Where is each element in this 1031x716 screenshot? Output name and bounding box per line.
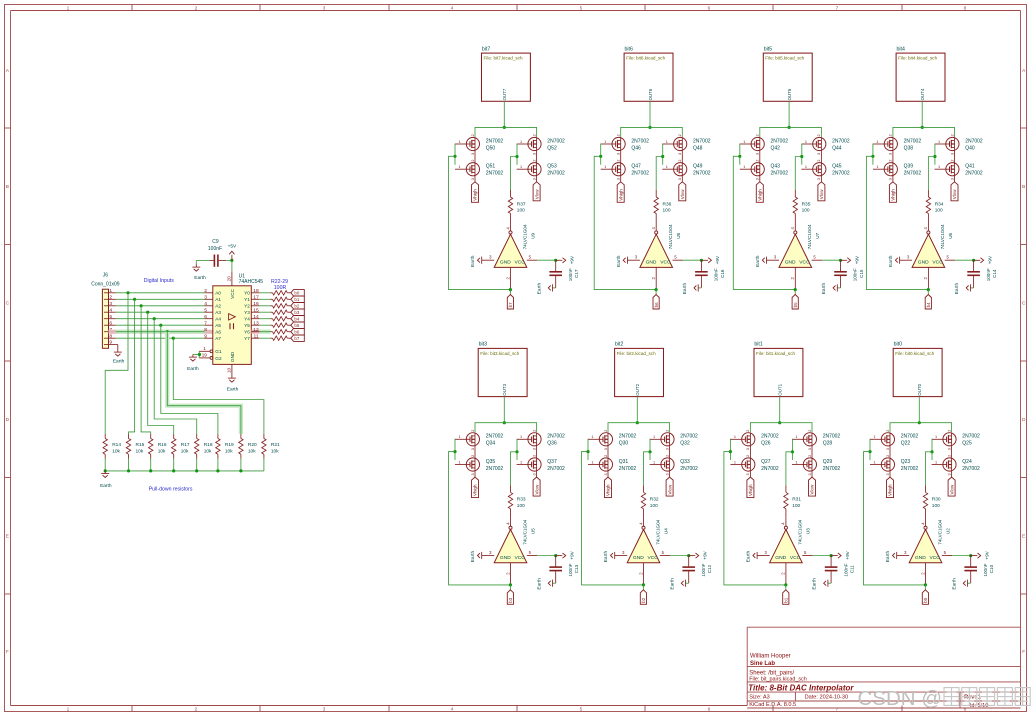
wire Q51 source down: [474, 176, 476, 182]
wire Q28 source to Q29 drain: [811, 446, 813, 458]
transistor Q46 2N7002: [601, 134, 649, 155]
svg-text:Date: 2024-10-30: Date: 2024-10-30: [805, 695, 849, 701]
pin U2 GND (pin 3): [897, 555, 910, 557]
inverter U9 74LVC1G04: [494, 223, 535, 268]
ground Earth (C13): [536, 578, 552, 590]
ground Earth (C11): [812, 578, 828, 590]
svg-text:C9: C9: [212, 239, 219, 245]
label b0: [922, 590, 928, 605]
svg-text:3: 3: [756, 178, 760, 180]
svg-text:GND: GND: [500, 260, 511, 266]
svg-text:1: 1: [520, 140, 522, 144]
svg-text:Q36: Q36: [547, 441, 557, 447]
wire Q34 source to Q35 drain: [474, 446, 476, 458]
svg-text:100: 100: [935, 208, 943, 214]
svg-text:bit3: bit3: [479, 342, 487, 348]
svg-text:3: 3: [471, 448, 475, 450]
svg-text:2N7002: 2N7002: [547, 138, 565, 144]
svg-text:2: 2: [950, 134, 954, 136]
svg-text:GND: GND: [915, 555, 926, 561]
label b7: [291, 335, 305, 341]
svg-text:100nF: 100nF: [568, 563, 573, 576]
svg-text:Q53: Q53: [547, 164, 557, 170]
svg-text:U5: U5: [530, 528, 535, 534]
pin U2 output (pin 2): [925, 563, 927, 585]
wire Q33 source down: [669, 471, 671, 477]
svg-text:6: 6: [708, 5, 711, 11]
svg-text:5: 5: [204, 307, 207, 313]
svg-text:E: E: [6, 533, 9, 539]
power +9V: [689, 550, 708, 559]
svg-text:Earth: Earth: [470, 255, 476, 267]
svg-text:1: 1: [67, 5, 70, 11]
pin U2 VCC (pin 5): [942, 555, 953, 557]
transistor Q53 2N7002: [517, 159, 565, 180]
svg-text:Q42: Q42: [771, 145, 781, 151]
svg-text:3: 3: [947, 448, 951, 450]
svg-text:Q52: Q52: [547, 145, 557, 151]
wire drain bus: [890, 423, 952, 433]
svg-text:Earth: Earth: [812, 578, 818, 590]
svg-text:8: 8: [964, 706, 967, 712]
resistor R23 100R: [271, 298, 273, 300]
svg-text:Q47: Q47: [631, 164, 641, 170]
svg-text:b7: b7: [294, 336, 299, 341]
svg-text:Y6: Y6: [244, 330, 250, 335]
svg-text:OUT1: OUT1: [778, 383, 783, 395]
label Vlow: [818, 182, 825, 201]
transistor Q30 2N7002: [588, 430, 636, 451]
svg-text:3: 3: [746, 448, 750, 450]
ground Earth (U5): [470, 551, 482, 563]
resistor R25 100R: [271, 311, 273, 313]
junction left gates: [453, 155, 456, 158]
svg-text:Vlow: Vlow: [810, 484, 815, 495]
svg-text:7: 7: [836, 5, 839, 11]
svg-text:74LVC1G04: 74LVC1G04: [798, 519, 803, 544]
label Vlow: [666, 477, 673, 496]
wire sheet OUT0 down: [918, 397, 920, 423]
pin U9 output (pin 2): [510, 267, 512, 289]
svg-text:Vlow: Vlow: [534, 189, 539, 200]
svg-text:2: 2: [617, 134, 621, 136]
svg-text:Q27: Q27: [761, 459, 771, 465]
resistor R36 100: [654, 190, 672, 223]
resistor R28 100R: [271, 331, 273, 333]
svg-text:74LVC1G04: 74LVC1G04: [940, 224, 945, 249]
svg-text:5: 5: [109, 314, 112, 320]
svg-text:U6: U6: [948, 232, 953, 238]
ground Earth (U9): [470, 255, 482, 267]
resistor R21 10k: [262, 434, 280, 459]
wire J6 pin4 to U1 A3: [116, 311, 205, 313]
wire drain bus: [621, 127, 683, 137]
wire J6 pin8 to U1 A7: [116, 337, 205, 339]
wire right gates tie: [662, 144, 664, 165]
svg-text:File: bit3.kicad_sch: File: bit3.kicad_sch: [480, 351, 520, 356]
wire Q46 source to Q47 drain: [620, 151, 622, 163]
junction output node: [509, 288, 512, 291]
label Vlow: [679, 182, 686, 201]
svg-text:VCC: VCC: [230, 288, 235, 298]
svg-text:Y1: Y1: [244, 297, 250, 302]
wire cap to earth: [698, 287, 701, 289]
wire Q37 source down: [536, 471, 538, 477]
ground Earth (C15): [821, 283, 837, 295]
svg-text:2N7002: 2N7002: [761, 434, 779, 440]
svg-text:74LVC1G04: 74LVC1G04: [522, 519, 527, 544]
resistor R22 100R: [271, 292, 273, 294]
wire output to label: [655, 290, 657, 295]
svg-text:OUT0: OUT0: [917, 383, 922, 395]
svg-text:b6: b6: [294, 330, 299, 335]
svg-text:100nF: 100nF: [983, 563, 988, 576]
svg-text:18: 18: [253, 288, 259, 294]
junction pin2 pulldown tap: [133, 298, 136, 301]
pin U1 A3 (pin 5): [205, 311, 213, 313]
IC U1 74AHC545: [213, 274, 263, 365]
svg-text:b2: b2: [294, 304, 299, 309]
resistor R24 100R: [271, 305, 273, 307]
svg-text:3: 3: [617, 153, 621, 155]
junction right gates: [648, 450, 651, 453]
label Vlow: [809, 477, 816, 496]
svg-text:2: 2: [109, 294, 112, 300]
svg-text:U3: U3: [806, 528, 811, 534]
transistor Q43 2N7002: [740, 159, 788, 180]
svg-text:U4: U4: [663, 528, 668, 534]
svg-text:1: 1: [795, 435, 797, 439]
junction left gates: [738, 155, 741, 158]
svg-text:Vlow: Vlow: [952, 189, 957, 200]
svg-text:b0: b0: [294, 291, 299, 296]
svg-text:Earth: Earth: [603, 551, 609, 563]
wire right gates tie: [516, 439, 518, 460]
wire VCC to +9V node: [822, 259, 840, 261]
svg-text:2N7002: 2N7002: [619, 466, 637, 472]
wire VCC to +9V node: [537, 555, 555, 557]
transistor Q27 2N7002: [730, 455, 778, 476]
ground Earth (U2): [885, 551, 897, 563]
resistor R26 100R: [271, 318, 273, 320]
svg-text:1: 1: [653, 460, 655, 464]
svg-text:VCC: VCC: [515, 260, 526, 266]
wire drain bus: [750, 423, 812, 433]
svg-text:File: bit_pairs.kicad_sch: File: bit_pairs.kicad_sch: [749, 676, 807, 682]
svg-text:3: 3: [678, 178, 682, 180]
svg-text:Vhigh: Vhigh: [618, 189, 623, 201]
pin U7 GND (pin 3): [767, 259, 780, 261]
capacitor C10 100nF: [964, 556, 994, 584]
svg-text:Vlow: Vlow: [534, 484, 539, 495]
svg-text:b4: b4: [926, 302, 931, 308]
label Vhigh: [887, 477, 894, 498]
junction right gates: [661, 155, 664, 158]
svg-text:Q46: Q46: [631, 145, 641, 151]
svg-text:GND: GND: [230, 351, 235, 362]
resistor R37 100: [508, 190, 526, 223]
svg-text:Earth: Earth: [951, 578, 957, 590]
pin U1 Y2 (pin 16): [251, 305, 259, 307]
wire Y5 to R27: [260, 324, 271, 326]
ground Earth (C14): [954, 283, 970, 295]
power +9V: [841, 255, 860, 264]
pin U4 GND (pin 3): [615, 555, 628, 557]
svg-text:10k: 10k: [158, 449, 166, 455]
ground Earth (U3): [746, 551, 758, 563]
junction output node: [924, 583, 927, 586]
watermark hanzi: [944, 688, 1030, 706]
transistor Q32 2N7002: [650, 430, 698, 451]
svg-text:R21: R21: [271, 442, 280, 448]
svg-text:2N7002: 2N7002: [486, 434, 504, 440]
power +5V: [228, 244, 237, 261]
svg-text:2: 2: [746, 430, 750, 432]
svg-text:Earth: Earth: [616, 255, 622, 267]
svg-text:C17: C17: [574, 269, 579, 278]
transistor Q36 2N7002: [517, 430, 565, 451]
svg-text:Vlow: Vlow: [667, 484, 672, 495]
junction VCC node: [230, 259, 233, 262]
wire R20 to ground rail: [240, 459, 242, 471]
svg-text:GND: GND: [918, 260, 929, 266]
svg-text:A6: A6: [215, 330, 221, 335]
ground Earth (U8): [616, 255, 628, 267]
svg-text:Y2: Y2: [244, 304, 250, 309]
svg-text:R32: R32: [650, 497, 659, 503]
junction right gates: [930, 450, 933, 453]
svg-text:2N7002: 2N7002: [901, 466, 919, 472]
svg-text:Earth: Earth: [227, 387, 239, 393]
svg-text:1: 1: [876, 165, 878, 169]
wire drain bus: [475, 423, 537, 433]
svg-text:3: 3: [746, 473, 750, 475]
svg-text:B: B: [1022, 184, 1025, 190]
wire Y7 to R29: [260, 337, 271, 339]
wire pulldown drop pin4: [148, 312, 174, 434]
svg-text:2: 2: [950, 159, 954, 161]
transistor Q31 2N7002: [588, 455, 636, 476]
wire ground rail: [105, 470, 264, 472]
transistor Q29 2N7002: [792, 455, 840, 476]
junction ground rail: [172, 469, 175, 472]
wire Q39 source down: [892, 176, 894, 182]
svg-text:+9V: +9V: [570, 255, 575, 264]
svg-text:A2: A2: [215, 304, 221, 309]
svg-text:R16: R16: [158, 442, 167, 448]
pin U1 G1 (pin 1): [199, 346, 213, 353]
svg-text:+9V: +9V: [987, 255, 992, 264]
border frame inner: [11, 10, 1021, 12]
wire output to label: [509, 585, 511, 590]
pin U3 output (pin 2): [785, 563, 787, 585]
svg-text:2: 2: [808, 430, 812, 432]
svg-text:b0: b0: [923, 597, 928, 603]
svg-text:2: 2: [665, 430, 669, 432]
wire Q27 source down: [749, 471, 751, 477]
transistor Q50 2N7002: [455, 134, 503, 155]
capacitor C16 100nF: [695, 260, 725, 288]
junction output node: [794, 288, 797, 291]
junction left gates: [871, 155, 874, 158]
svg-text:Vhigh: Vhigh: [473, 484, 478, 496]
junction drain node: [503, 126, 506, 129]
svg-text:Earth: Earth: [885, 551, 891, 563]
transistor Q45 2N7002: [801, 159, 849, 180]
wire sheet OUT7 down: [503, 101, 505, 127]
svg-text:b4: b4: [294, 317, 299, 322]
svg-text:1: 1: [520, 165, 522, 169]
svg-text:3: 3: [808, 473, 812, 475]
svg-text:2N7002: 2N7002: [771, 171, 789, 177]
svg-text:b2: b2: [641, 597, 646, 603]
svg-text:File: bit7.kicad_sch: File: bit7.kicad_sch: [484, 56, 524, 61]
wire drain bus: [760, 127, 822, 137]
svg-text:2: 2: [808, 455, 812, 457]
svg-text:A7: A7: [215, 336, 221, 341]
pin U4 output (pin 2): [643, 563, 645, 585]
transistor Q22 2N7002: [870, 430, 918, 451]
svg-text:File: bit6.kicad_sch: File: bit6.kicad_sch: [626, 56, 666, 61]
label b7: [507, 295, 513, 310]
wire cap to earth: [970, 287, 973, 289]
svg-text:3: 3: [756, 153, 760, 155]
svg-text:100nF: 100nF: [208, 246, 222, 252]
svg-text:1: 1: [935, 460, 937, 464]
inverter U6 74LVC1G04: [912, 223, 953, 268]
svg-text:C11: C11: [850, 565, 855, 574]
svg-text:bit7: bit7: [482, 46, 490, 52]
capacitor C17 100nF: [549, 260, 579, 288]
svg-text:2: 2: [617, 159, 621, 161]
power +9V: [831, 550, 850, 559]
svg-text:3: 3: [817, 178, 821, 180]
svg-text:VCC: VCC: [932, 260, 943, 266]
ground Earth (U6): [888, 255, 900, 267]
svg-text:+9V: +9V: [570, 550, 575, 559]
wire J6 pin7 to U1 A6 (highlighted net): [109, 330, 213, 334]
wire pulldown drop pin8: [173, 338, 264, 434]
svg-text:6: 6: [204, 314, 207, 320]
transistor Q24 2N7002: [932, 455, 980, 476]
svg-text:C15: C15: [859, 269, 864, 278]
pin U7 output (pin 2): [794, 267, 796, 289]
sheet bit6: [624, 46, 673, 101]
label Vhigh: [617, 182, 624, 203]
junction +9V node: [969, 554, 972, 557]
capacitor C13 100nF: [549, 556, 579, 584]
svg-text:VCC: VCC: [660, 260, 671, 266]
label Vhigh: [472, 477, 479, 498]
wire output to label: [924, 585, 926, 590]
junction ground rail: [239, 469, 242, 472]
connector J6 Conn_01x09: [91, 272, 120, 348]
svg-text:3: 3: [532, 153, 536, 155]
svg-text:b3: b3: [508, 597, 513, 603]
ground Earth (C10): [951, 578, 967, 590]
svg-text:Y5: Y5: [244, 323, 250, 328]
svg-text:17: 17: [253, 294, 259, 300]
transistor Q49 2N7002: [662, 159, 710, 180]
svg-text:11: 11: [253, 333, 258, 339]
pin U1 Y3 (pin 15): [251, 311, 259, 313]
transistor Q47 2N7002: [601, 159, 649, 180]
junction left gates: [599, 155, 602, 158]
junction output node: [655, 288, 658, 291]
wire right gates to resistor: [786, 452, 793, 486]
svg-text:Earth: Earth: [821, 283, 827, 295]
inverter U7 74LVC1G04: [779, 223, 820, 268]
svg-text:9: 9: [204, 333, 207, 339]
ground Earth (C16): [682, 283, 698, 295]
svg-text:1: 1: [666, 165, 668, 169]
svg-text:5: 5: [580, 5, 583, 11]
wire R19 to ground rail: [217, 459, 219, 471]
capacitor C9 100nF: [208, 239, 226, 267]
pin U1 A1 (pin 3): [205, 298, 213, 300]
wire pulldown drop pin3: [141, 306, 151, 434]
resistor R35 100: [793, 190, 811, 223]
wire cap to earth: [553, 287, 556, 289]
svg-text:74LVC1G04: 74LVC1G04: [807, 224, 812, 249]
svg-text:2N7002: 2N7002: [962, 434, 980, 440]
wire Q48 source to Q49 drain: [681, 151, 683, 163]
svg-text:2: 2: [195, 5, 198, 11]
wire Y2 to R24: [260, 305, 271, 307]
svg-text:2N7002: 2N7002: [486, 171, 504, 177]
svg-text:A3: A3: [215, 310, 221, 315]
svg-text:Q22: Q22: [901, 441, 911, 447]
svg-text:R17: R17: [181, 442, 190, 448]
capacitor C11 100nF: [825, 556, 855, 584]
wire feedback to left gates: [594, 156, 656, 289]
svg-text:2N7002: 2N7002: [901, 434, 919, 440]
svg-text:2N7002: 2N7002: [761, 466, 779, 472]
svg-text:1: 1: [203, 346, 206, 351]
svg-text:2N7002: 2N7002: [832, 138, 850, 144]
junction drain node: [921, 126, 924, 129]
label b6: [653, 295, 659, 310]
transistor Q48 2N7002: [662, 134, 710, 155]
svg-text:2N7002: 2N7002: [631, 171, 649, 177]
junction +9V node: [972, 259, 975, 262]
junction drain node: [788, 126, 791, 129]
wire J6 pin6 to U1 A5: [116, 324, 205, 326]
svg-text:+9V: +9V: [854, 255, 859, 264]
svg-text:2: 2: [195, 706, 198, 712]
resistor R29 100R: [271, 337, 273, 339]
svg-text:3: 3: [950, 153, 954, 155]
power +9V: [971, 550, 990, 559]
svg-text:14: 14: [253, 314, 259, 320]
transistor Q41 2N7002: [935, 159, 983, 180]
svg-text:1: 1: [805, 165, 807, 169]
svg-text:8: 8: [204, 327, 207, 333]
svg-text:Q48: Q48: [693, 145, 703, 151]
svg-text:1: 1: [458, 165, 460, 169]
svg-text:1: 1: [935, 435, 937, 439]
pin U8 VCC (pin 5): [673, 259, 684, 261]
svg-text:15: 15: [253, 307, 259, 313]
wire right gates to resistor: [656, 157, 663, 191]
wire output to label: [642, 585, 644, 590]
svg-text:1: 1: [604, 140, 606, 144]
svg-text:Q35: Q35: [486, 459, 496, 465]
svg-text:1: 1: [873, 460, 875, 464]
svg-text:b1: b1: [294, 297, 299, 302]
svg-text:1: 1: [109, 288, 112, 294]
svg-text:Conn_01x09: Conn_01x09: [91, 282, 120, 288]
